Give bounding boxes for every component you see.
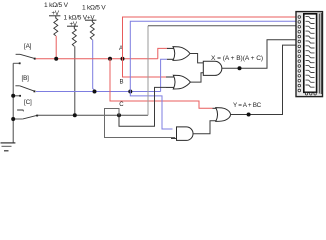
switch J3 [C] (closed) (13, 110, 38, 119)
OR gate U5 output Y (213, 108, 231, 122)
wire OR1 output to AND3 input (190, 54, 203, 63)
junction dot node C / R2 (73, 113, 77, 117)
junction dot node A / riser to OR5 (108, 57, 112, 61)
wire B up to connector pin 2 (blue) (130, 21, 298, 91)
power +V supply for R2 (67, 21, 78, 29)
wire A up to OR1 input (red) (158, 48, 168, 58)
wire R1 to node A (red) (55, 36, 57, 59)
svg-text:C: C (119, 102, 124, 108)
junction dot Y output (247, 113, 251, 117)
connector 3D edge lines (319, 13, 321, 94)
wire C up to connector pin 3 (riser, light gray) (147, 26, 149, 115)
svg-text:X = (A + B)(A + C): X = (A + B)(A + C) (211, 55, 263, 62)
connector J4 outer body (296, 12, 323, 97)
ground bus vertical wire (12, 63, 14, 143)
svg-text:B: B (120, 79, 124, 85)
wire C to connector pin 3 (horizontal, dark gray) (148, 25, 299, 27)
wire OR2 output to AND3 input (190, 73, 203, 82)
wire R3 to node B (blue) (93, 40, 95, 92)
switch J1 [A] (open) (13, 54, 36, 64)
svg-text:[A]: [A] (24, 43, 32, 50)
connector inner DIP switch box (304, 14, 317, 93)
junction dot node A / riser to connector and OR2 (121, 57, 125, 61)
connector DIP switch squiggles (306, 16, 315, 87)
ground symbol (1, 143, 16, 151)
junction dot bus-switch C (11, 117, 15, 121)
wire C to OR2 input (black) (119, 87, 166, 126)
wire B down to AND4 input (blue) (130, 92, 172, 130)
svg-text:[B]: [B] (22, 75, 30, 82)
junction dot X output (238, 66, 242, 70)
junction dot bus-switch B (11, 94, 15, 98)
wire AND4 output to OR5 input (193, 121, 217, 134)
wire A up to connector pin 1 (red) (123, 17, 299, 59)
junction dot node C / branch (117, 113, 121, 117)
junction dot node B / riser to connector (128, 90, 132, 94)
connector bottom mounting circles (305, 93, 316, 95)
node C wire (black horizontal) (38, 114, 148, 116)
power +V supply for R3 (85, 14, 96, 22)
svg-text:Y = A + BC: Y = A + BC (233, 102, 262, 109)
switch J2 [B] (open) (13, 86, 35, 97)
OR gate U2 (A+C) (166, 75, 190, 89)
wire X output to connector pin 5 (222, 40, 299, 68)
wire B up to OR1 input (blue) (161, 59, 167, 91)
connector pin circles (298, 16, 301, 92)
junction dot node B / R3 (93, 90, 97, 94)
wire Y output to connector pin 6 (231, 45, 299, 114)
AND gate U4 (BC) (171, 127, 193, 140)
resistor R3 (90, 22, 94, 40)
svg-text:1 kΩ/5 V: 1 kΩ/5 V (82, 5, 106, 12)
resistor R1 (54, 18, 58, 36)
power +V supply for R1 (49, 10, 60, 18)
AND gate U3 output X (203, 61, 222, 75)
wire A down to OR2 input (red) (123, 59, 168, 77)
svg-text:+V: +V (70, 21, 78, 28)
node A wire (red horizontal) (36, 58, 158, 60)
svg-text:[C]: [C] (24, 99, 32, 106)
resistor R2 (72, 29, 76, 47)
wire C to AND4 input (gray detour left) (105, 109, 176, 138)
OR gate U1 (A+B) (167, 47, 190, 61)
svg-text:1 kΩ/5 V: 1 kΩ/5 V (44, 2, 69, 9)
wire R2 to node C (black, crosses A and B lines) (74, 46, 76, 115)
wire A down to OR5 input (red) (110, 59, 213, 109)
junction dot node A / R1 (54, 57, 58, 61)
node B wire (blue horizontal) (36, 91, 161, 93)
